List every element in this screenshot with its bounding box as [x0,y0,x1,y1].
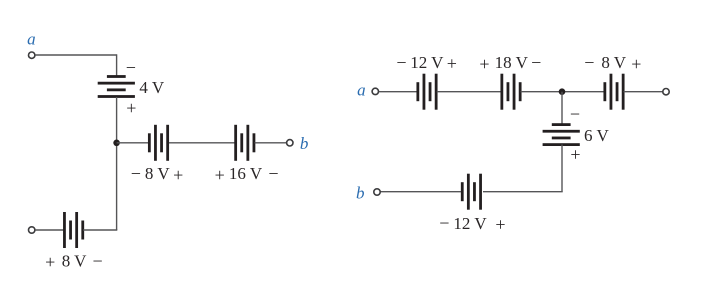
svg-text:+: + [447,54,457,74]
svg-text:+: + [479,54,489,74]
svg-text:−: − [126,57,136,77]
svg-text:+: + [173,165,183,185]
svg-text:+: + [631,54,641,74]
svg-text:b: b [300,134,309,153]
svg-text:+: + [570,145,580,165]
svg-text:a: a [27,30,36,49]
svg-text:−: − [268,164,278,184]
svg-text:−: − [131,164,141,184]
svg-text:−: − [93,251,103,271]
svg-text:8 V: 8 V [62,252,87,271]
svg-text:16 V: 16 V [229,164,263,183]
svg-text:8 V: 8 V [145,164,170,183]
svg-text:12 V: 12 V [410,53,444,72]
svg-text:8 V: 8 V [601,53,626,72]
svg-text:a: a [357,80,366,99]
svg-text:18 V: 18 V [495,53,529,72]
svg-text:−: − [531,53,541,73]
svg-text:12 V: 12 V [453,214,487,233]
svg-text:−: − [570,104,580,124]
svg-text:+: + [45,252,55,272]
svg-text:6 V: 6 V [584,126,609,145]
svg-text:+: + [126,98,136,118]
svg-text:−: − [584,53,594,73]
svg-text:−: − [396,52,406,72]
svg-text:+: + [215,165,225,185]
svg-text:−: − [439,213,449,233]
svg-text:4 V: 4 V [139,78,164,97]
svg-text:b: b [356,184,365,203]
svg-text:+: + [495,215,505,235]
